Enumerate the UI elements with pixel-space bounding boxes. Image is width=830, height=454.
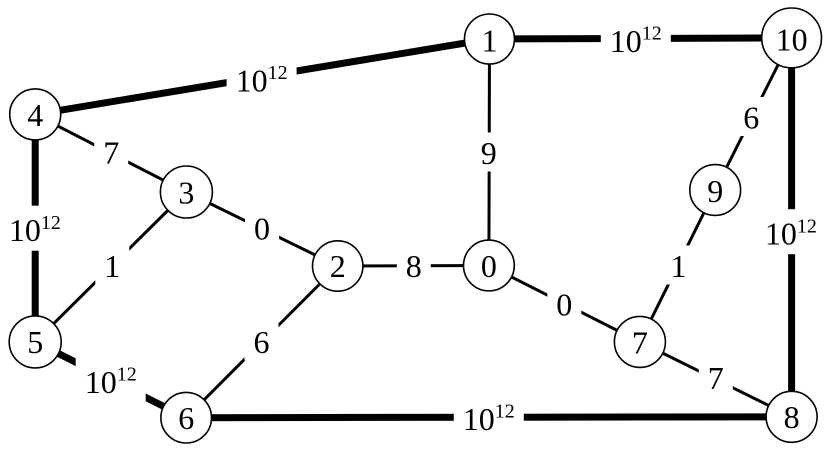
wire edge 7-8 weight 7: [640, 342, 792, 417]
wire edge 10-8 weight 1e12: [788, 38, 795, 417]
edge label 10^12 (4-5): [0, 206, 70, 251]
svg-text:6: 6: [178, 400, 194, 436]
svg-text:6: 6: [254, 324, 270, 360]
svg-text:4: 4: [27, 97, 43, 133]
edge label 6 (10-9): [734, 97, 768, 136]
wire edge 4-5 weight 1e12: [32, 114, 39, 342]
wire edge 9-7 weight 1: [640, 190, 715, 342]
svg-text:1: 1: [482, 23, 498, 59]
svg-text:9: 9: [707, 173, 723, 209]
svg-text:5: 5: [27, 324, 43, 360]
edge label 0 (3-2): [245, 208, 279, 247]
svg-text:0: 0: [556, 287, 572, 323]
node 6: [161, 392, 212, 443]
node 9: [690, 165, 741, 216]
svg-text:7: 7: [103, 134, 119, 170]
edge label 10^12 (5-6): [76, 357, 146, 402]
node 7: [614, 316, 665, 367]
edge label 7 (7-8): [699, 358, 733, 397]
svg-text:1: 1: [104, 248, 120, 284]
svg-text:1: 1: [671, 248, 687, 284]
wire edge 4-1 weight 1e12: [35, 39, 489, 114]
edge label 10^12 (6-8): [454, 394, 524, 439]
edge label 9 (1-0): [472, 133, 506, 172]
svg-text:0: 0: [481, 248, 497, 284]
edge label 7 (4-3): [94, 132, 128, 171]
svg-text:8: 8: [406, 248, 422, 284]
wire edge 10-9 weight 6: [715, 38, 791, 190]
node 10: [762, 8, 822, 68]
edge label 10^12 (4-1): [227, 56, 297, 101]
edge label 6 (2-6): [245, 322, 279, 361]
wire edge 1-0 weight 9: [487, 39, 491, 266]
svg-text:6: 6: [743, 100, 759, 136]
edge label 8 (2-0): [397, 246, 431, 285]
wire edge 2-6 weight 6: [186, 266, 338, 418]
svg-text:8: 8: [784, 399, 800, 435]
wire edge 3-5 weight 1: [35, 192, 186, 342]
wire edge 2-0 weight 8: [338, 264, 489, 268]
node 1: [465, 14, 515, 64]
wire edge 3-2 weight 0: [186, 192, 337, 266]
node 5: [9, 316, 61, 368]
svg-text:0: 0: [254, 211, 270, 247]
edge label 1 (3-5): [95, 246, 129, 285]
node 3: [160, 166, 212, 218]
edge label 1 (9-7): [662, 246, 696, 285]
wire edge 4-3 weight 7: [35, 114, 186, 192]
node 2: [313, 241, 363, 291]
wire edge 6-8 weight 1e12: [186, 413, 791, 421]
node 8: [766, 391, 817, 442]
edge label 10^12 (10-8): [756, 209, 826, 254]
node 0: [464, 240, 515, 291]
wire edge 1-10 weight 1e12: [490, 38, 792, 39]
edge label 0 (0-7): [547, 284, 581, 323]
svg-text:10: 10: [776, 21, 808, 57]
svg-text:3: 3: [178, 174, 194, 210]
wire edge 0-7 weight 0: [489, 266, 640, 342]
node 4: [10, 89, 61, 140]
svg-text:7: 7: [632, 324, 648, 360]
wire edge 5-6 weight 1e12: [35, 342, 186, 418]
edge label 10^12 (1-10): [601, 16, 671, 61]
svg-text:7: 7: [708, 360, 724, 396]
svg-text:9: 9: [481, 135, 497, 171]
svg-text:2: 2: [330, 248, 346, 284]
